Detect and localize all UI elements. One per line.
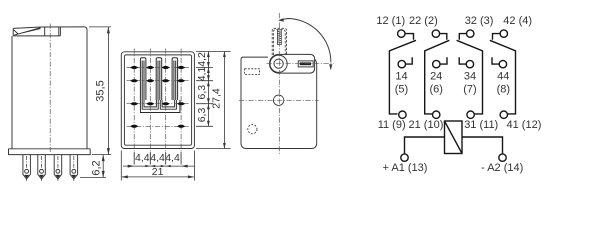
svg-text:(7): (7)	[463, 83, 476, 95]
svg-text:6,3: 6,3	[196, 85, 208, 100]
svg-text:4,4: 4,4	[165, 152, 180, 164]
svg-text:11 (9): 11 (9)	[378, 119, 406, 131]
svg-text:4,2: 4,2	[196, 52, 208, 67]
svg-text:41 (12): 41 (12)	[507, 119, 542, 131]
svg-text:+ A1 (13): + A1 (13)	[383, 162, 428, 174]
svg-text:4,1: 4,1	[196, 67, 208, 82]
svg-text:44: 44	[497, 70, 509, 82]
svg-text:(8): (8)	[497, 83, 510, 95]
svg-text:14: 14	[395, 70, 407, 82]
svg-text:12 (1): 12 (1)	[376, 15, 405, 27]
svg-text:22 (2): 22 (2)	[409, 15, 438, 27]
svg-text:(5): (5)	[395, 83, 408, 95]
svg-text:6,2: 6,2	[91, 160, 103, 175]
svg-text:6,3: 6,3	[196, 108, 208, 123]
svg-text:4,4: 4,4	[135, 152, 150, 164]
svg-text:- A2 (14): - A2 (14)	[481, 162, 523, 174]
svg-text:21: 21	[152, 166, 164, 178]
svg-text:32 (3): 32 (3)	[465, 15, 494, 27]
svg-text:(6): (6)	[429, 83, 442, 95]
svg-text:4,4: 4,4	[150, 152, 165, 164]
svg-text:35,5: 35,5	[95, 80, 107, 101]
svg-text:21 (10): 21 (10)	[409, 119, 444, 131]
svg-text:34: 34	[464, 70, 476, 82]
svg-text:27,4: 27,4	[211, 88, 223, 109]
svg-text:24: 24	[430, 70, 442, 82]
svg-text:31 (11): 31 (11)	[464, 119, 498, 131]
svg-text:42 (4): 42 (4)	[503, 15, 532, 27]
